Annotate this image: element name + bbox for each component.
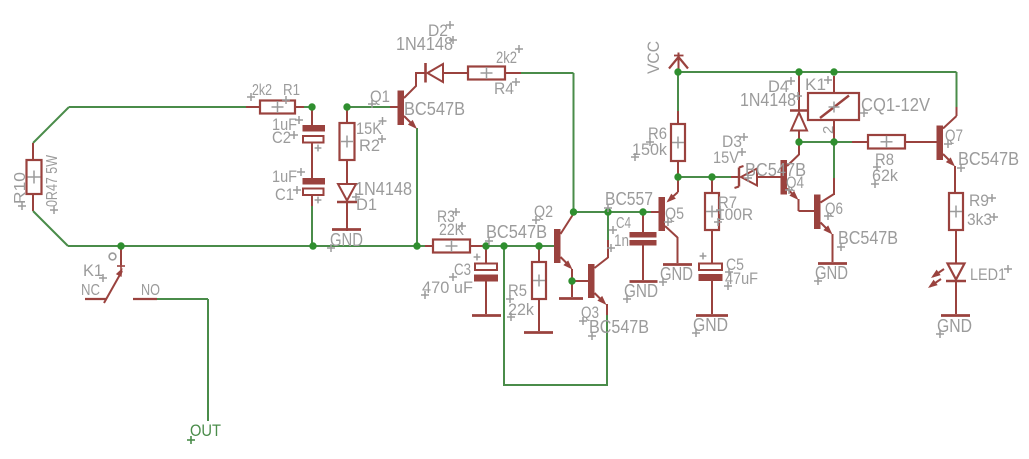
svg-text:BC547B: BC547B <box>404 99 465 119</box>
svg-text:D1: D1 <box>356 195 377 214</box>
svg-text:GND: GND <box>693 315 728 335</box>
svg-text:R10: R10 <box>12 172 29 204</box>
svg-text:C2: C2 <box>272 128 291 147</box>
svg-text:22k: 22k <box>508 300 534 319</box>
svg-text:Q1: Q1 <box>370 87 390 106</box>
svg-text:22K: 22K <box>439 221 464 239</box>
svg-text:GND: GND <box>815 263 848 283</box>
svg-text:GND: GND <box>937 316 972 336</box>
svg-text:C4: C4 <box>616 215 631 232</box>
svg-text:GND: GND <box>660 264 693 284</box>
svg-text:2k2: 2k2 <box>252 82 272 99</box>
svg-text:47uF: 47uF <box>725 269 758 288</box>
svg-text:R4: R4 <box>494 79 514 98</box>
svg-text:2k2: 2k2 <box>496 48 517 67</box>
svg-text:150k: 150k <box>632 140 667 159</box>
svg-text:Q2: Q2 <box>534 202 553 221</box>
svg-text:BC547B: BC547B <box>486 221 547 242</box>
svg-text:100R: 100R <box>716 205 753 224</box>
svg-text:62k: 62k <box>872 166 898 185</box>
svg-text:3k3: 3k3 <box>967 210 992 229</box>
svg-text:R5: R5 <box>508 281 527 300</box>
svg-text:0R47 5W: 0R47 5W <box>44 154 61 207</box>
svg-text:LED1: LED1 <box>970 265 1006 284</box>
svg-text:K1: K1 <box>83 261 103 280</box>
svg-text:NO: NO <box>141 282 160 299</box>
svg-text:BC547B: BC547B <box>589 316 649 337</box>
svg-text:OUT: OUT <box>190 421 221 440</box>
svg-text:GND: GND <box>330 230 363 250</box>
svg-text:1N4148: 1N4148 <box>396 34 453 54</box>
svg-text:2: 2 <box>820 126 837 134</box>
svg-text:NC: NC <box>81 282 100 299</box>
svg-text:R9: R9 <box>969 191 989 210</box>
svg-text:C1: C1 <box>275 185 294 204</box>
svg-text:1uF: 1uF <box>272 167 297 186</box>
svg-text:15V: 15V <box>713 148 740 167</box>
svg-text:GND: GND <box>624 281 658 301</box>
svg-text:BC557: BC557 <box>605 189 653 209</box>
svg-text:BC547B: BC547B <box>958 148 1019 169</box>
svg-text:BC547B: BC547B <box>838 227 898 248</box>
svg-text:470 uF: 470 uF <box>422 278 473 297</box>
svg-text:VCC: VCC <box>644 41 663 74</box>
svg-text:1n: 1n <box>614 232 629 250</box>
svg-text:1N4148: 1N4148 <box>740 90 796 110</box>
svg-text:K1: K1 <box>805 75 826 94</box>
svg-text:CQ1-12V: CQ1-12V <box>861 95 930 115</box>
svg-text:R2: R2 <box>359 136 380 155</box>
